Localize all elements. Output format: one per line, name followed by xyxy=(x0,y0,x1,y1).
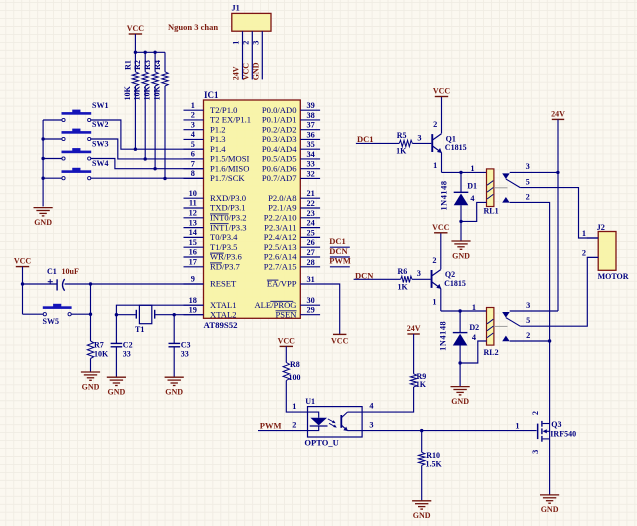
svg-text:PWM: PWM xyxy=(260,421,282,431)
svg-text:VCC: VCC xyxy=(14,257,32,266)
junction D2 bottom xyxy=(458,361,461,364)
svg-text:3: 3 xyxy=(417,269,421,278)
wire switch ground rail xyxy=(42,120,44,206)
svg-text:P1.3: P1.3 xyxy=(210,134,226,144)
svg-text:VCC: VCC xyxy=(331,336,349,345)
resistor R8 100 xyxy=(285,346,287,362)
RL1 pin 4 wire xyxy=(461,202,487,221)
svg-text:VCC: VCC xyxy=(432,223,450,232)
svg-text:T2 EX/P1.1: T2 EX/P1.1 xyxy=(210,115,251,125)
svg-text:4: 4 xyxy=(191,130,195,139)
capacitor C3 33 xyxy=(169,342,181,344)
wire XTAL2 to crystal xyxy=(155,314,203,316)
optocoupler U1 OPTO_U xyxy=(308,407,363,437)
ground (switches) xyxy=(34,207,53,209)
wire R8 to U1 pin 1 xyxy=(286,381,307,413)
junction ground rail xyxy=(41,177,44,180)
svg-text:31: 31 xyxy=(307,275,315,284)
junction D2 top xyxy=(458,309,461,312)
svg-text:D2: D2 xyxy=(469,323,479,332)
Q2 pin 1 emitter wire xyxy=(440,289,442,312)
svg-text:27: 27 xyxy=(307,248,315,257)
svg-text:1K: 1K xyxy=(416,380,427,389)
wire SW1 left terminal to ground rail xyxy=(43,119,62,121)
svg-text:DC1: DC1 xyxy=(329,236,346,246)
relay RL2 contacts xyxy=(502,312,510,318)
power VCC (R8) xyxy=(280,345,293,347)
svg-text:24V: 24V xyxy=(551,109,565,118)
J1 pin 1 (24V) xyxy=(242,31,244,79)
transistor Q2 C1815 xyxy=(431,270,433,288)
svg-text:1N4148: 1N4148 xyxy=(440,180,449,210)
IC1 pin 2 (T2 EX/P1.1) xyxy=(184,119,204,121)
switch SW4 pushbutton xyxy=(62,170,92,173)
svg-text:25: 25 xyxy=(307,228,315,237)
svg-text:32: 32 xyxy=(307,169,315,178)
svg-text:C1: C1 xyxy=(47,267,57,276)
svg-text:R6: R6 xyxy=(398,267,408,276)
svg-text:2: 2 xyxy=(433,120,437,129)
connector J1 (power header) xyxy=(232,13,271,31)
svg-text:GND: GND xyxy=(165,388,183,397)
wire SW3 left terminal to ground rail xyxy=(43,158,62,160)
svg-text:1N4148: 1N4148 xyxy=(439,321,448,351)
svg-text:P0.6/AD6: P0.6/AD6 xyxy=(262,163,297,173)
IC1 pin 38 (P0.1/AD1) xyxy=(300,119,320,121)
junction R4 / pin8 wire xyxy=(163,177,166,180)
wire SW2 right terminal to IC1 pin 6 xyxy=(91,139,204,159)
wire R1 bottom to P1.4 net xyxy=(134,86,136,149)
junction D1 top xyxy=(459,171,462,174)
svg-text:22: 22 xyxy=(307,199,315,208)
IC1 pin 27 (P2.6/A14) xyxy=(300,256,320,258)
svg-text:P0.2/AD2: P0.2/AD2 xyxy=(262,124,297,134)
svg-text:VCC: VCC xyxy=(433,87,451,96)
svg-text:8: 8 xyxy=(191,169,195,178)
svg-text:2: 2 xyxy=(526,331,530,340)
resistor R7 10K xyxy=(87,341,93,359)
svg-text:3: 3 xyxy=(191,120,195,129)
svg-text:P2.2/A10: P2.2/A10 xyxy=(264,213,297,223)
wire Q1 emitter to RL1 coil xyxy=(442,171,487,173)
wire PWM to U1 pin 2 xyxy=(258,430,308,432)
IC1 pin 25 (P2.4/A12) xyxy=(300,236,320,238)
junction R1 / pin5 wire xyxy=(134,148,137,151)
resistor R3 10K xyxy=(154,52,156,72)
svg-text:C1815: C1815 xyxy=(444,279,466,288)
IC1 pin 23 (P2.2/A10) xyxy=(300,217,320,219)
svg-text:30: 30 xyxy=(307,296,315,305)
svg-text:16: 16 xyxy=(189,248,197,257)
svg-text:33: 33 xyxy=(181,350,189,359)
relay RL1 coil xyxy=(487,169,494,207)
svg-text:3: 3 xyxy=(417,133,421,142)
svg-text:P0.3/AD3: P0.3/AD3 xyxy=(262,134,297,144)
svg-text:Nguon 3 chan: Nguon 3 chan xyxy=(168,22,218,32)
wire VCC to SW5 xyxy=(23,313,44,315)
svg-text:3: 3 xyxy=(369,421,373,430)
wire SW4 left terminal to ground rail xyxy=(43,177,62,179)
svg-text:3: 3 xyxy=(531,450,540,454)
svg-text:XTAL1: XTAL1 xyxy=(210,300,237,310)
IC1 pin 15 (T1/P3.5) xyxy=(184,246,204,248)
wire U1 pin 4 to R9 xyxy=(362,387,414,412)
svg-text:P1.4: P1.4 xyxy=(210,144,226,154)
svg-text:P0.0/AD0: P0.0/AD0 xyxy=(262,105,297,115)
svg-text:GND: GND xyxy=(413,511,431,520)
svg-text:VCC: VCC xyxy=(278,336,296,345)
svg-text:1: 1 xyxy=(515,421,519,430)
svg-text:VCC: VCC xyxy=(127,24,145,33)
svg-text:1: 1 xyxy=(292,402,296,411)
svg-text:R5: R5 xyxy=(397,131,407,140)
svg-text:XTAL2: XTAL2 xyxy=(210,309,237,319)
svg-text:R8: R8 xyxy=(290,360,300,369)
IC1 pin 1 (T2/P1.0) xyxy=(184,109,204,111)
IC1 pin 28 (P2.7/A15) xyxy=(300,266,320,268)
svg-text:P2.7/A15: P2.7/A15 xyxy=(264,262,297,272)
svg-text:GND: GND xyxy=(541,505,559,514)
svg-text:2: 2 xyxy=(582,248,586,257)
IC1 pin 37 (P0.2/AD2) xyxy=(300,129,320,131)
RL1 pin 2 wire down to Q3 drain xyxy=(510,202,550,423)
svg-text:P2.3/A11: P2.3/A11 xyxy=(264,222,296,232)
junction crystal right xyxy=(173,313,176,316)
svg-text:10uF: 10uF xyxy=(62,267,79,276)
IC1 pin 29 (PSEN) xyxy=(300,314,320,316)
svg-text:24V: 24V xyxy=(407,324,421,333)
svg-text:P1.5/MOSI: P1.5/MOSI xyxy=(210,154,250,164)
svg-text:P0.4/AD4: P0.4/AD4 xyxy=(262,144,297,154)
junction R3 / pin7 wire xyxy=(153,167,156,170)
svg-text:38: 38 xyxy=(307,111,315,120)
wire R5 to Q1 base xyxy=(412,142,431,144)
svg-text:Q2: Q2 xyxy=(445,270,455,279)
wire C3 to ground xyxy=(173,347,175,377)
ground (C2) xyxy=(107,376,126,378)
svg-text:GND: GND xyxy=(452,251,470,260)
IC1 pin 39 (P0.0/AD0) xyxy=(300,109,320,111)
Q2 pin 2 collector wire to VCC xyxy=(440,233,442,269)
svg-text:P2.4/A12: P2.4/A12 xyxy=(264,232,297,242)
power VCC (Q1 collector) xyxy=(435,96,448,98)
wire R7 to ground xyxy=(90,359,92,372)
Q1 pin 1 emitter wire xyxy=(441,153,443,173)
wire DCN to R6 xyxy=(354,278,401,280)
wire C2 to ground xyxy=(115,347,117,377)
power VCC (reset) xyxy=(16,266,29,268)
svg-text:1: 1 xyxy=(470,164,474,173)
junction rail-R1 xyxy=(134,51,137,54)
transistor Q1 C1815 xyxy=(431,134,433,152)
svg-text:TXD/P3.1: TXD/P3.1 xyxy=(210,203,246,213)
svg-text:17: 17 xyxy=(189,258,197,267)
svg-text:RL1: RL1 xyxy=(484,207,499,216)
power VCC (EA/VPP, flipped) xyxy=(333,333,346,335)
svg-text:29: 29 xyxy=(307,306,315,315)
switch SW1 pushbutton xyxy=(62,112,92,115)
svg-text:MOTOR: MOTOR xyxy=(598,272,629,281)
Q3 pin 3 source wire xyxy=(549,439,551,495)
wire R2 bottom to P1.5 net xyxy=(144,86,146,159)
svg-text:T1: T1 xyxy=(135,325,144,334)
resistor R5 1K xyxy=(399,140,412,146)
svg-text:P1.6/MISO: P1.6/MISO xyxy=(210,163,249,173)
wire SW5 to reset net xyxy=(71,313,90,315)
svg-text:2: 2 xyxy=(526,193,530,202)
junction rail-R3 xyxy=(153,51,156,54)
svg-text:P0.7/AD7: P0.7/AD7 xyxy=(262,173,297,183)
svg-text:2: 2 xyxy=(292,421,296,430)
wire R10 to ground xyxy=(421,465,423,500)
IC1 pin 30 (ALE/PROG) xyxy=(300,304,320,306)
wire DC1 to R5 xyxy=(356,142,399,144)
IC1 pin 17 (RD/P3.7) xyxy=(184,266,204,268)
wire VCC stem to rail xyxy=(134,34,136,52)
svg-text:36: 36 xyxy=(307,130,315,139)
IC1 pin 13 (INT1/P3.3) xyxy=(184,227,204,229)
resistor R2 10K xyxy=(144,52,146,72)
IC1 pin 14 (T0/P3.4) xyxy=(184,236,204,238)
svg-text:9: 9 xyxy=(191,275,195,284)
wire VCC stem down xyxy=(22,267,24,315)
wire R6 to Q2 base xyxy=(412,278,431,280)
resistor R1 10K xyxy=(134,52,136,72)
svg-text:19: 19 xyxy=(189,305,197,314)
wire SW1 right terminal to IC1 pin 5 xyxy=(91,120,204,149)
svg-text:5: 5 xyxy=(526,178,530,187)
wire C3 branch xyxy=(173,315,175,344)
wire RESET line to IC1 pin 9 xyxy=(23,283,58,285)
junction ground rail xyxy=(41,157,44,160)
svg-text:1: 1 xyxy=(433,161,437,170)
svg-text:1: 1 xyxy=(232,41,241,45)
IC1 pin 22 (P2.1/A9) xyxy=(300,207,320,209)
IC1 pin 21 (P2.0/A8) xyxy=(300,197,320,199)
ground (D2) xyxy=(451,386,470,388)
svg-text:7: 7 xyxy=(191,159,195,168)
wire D2 vertical xyxy=(459,311,461,333)
switch SW3 pushbutton xyxy=(62,151,92,154)
svg-text:R7: R7 xyxy=(94,341,104,350)
svg-text:4: 4 xyxy=(472,333,476,342)
wire SW3 right terminal to IC1 pin 7 xyxy=(91,159,204,169)
IC chip U-body IC1 AT89S52 xyxy=(204,100,301,318)
svg-text:10K: 10K xyxy=(143,85,152,100)
svg-text:10K: 10K xyxy=(153,85,162,100)
svg-text:RL2: RL2 xyxy=(484,348,499,357)
IC1 pin 34 (P0.5/AD5) xyxy=(300,158,320,160)
svg-text:D1: D1 xyxy=(467,181,477,190)
svg-text:24: 24 xyxy=(307,219,315,228)
svg-text:IRF540: IRF540 xyxy=(550,430,576,439)
ground (R10) xyxy=(412,500,431,502)
svg-text:3: 3 xyxy=(526,301,530,310)
svg-text:SW5: SW5 xyxy=(43,317,59,326)
svg-text:1: 1 xyxy=(432,297,436,306)
svg-text:GND: GND xyxy=(251,62,260,80)
IC1 pin 32 (P0.7/AD7) xyxy=(300,177,320,179)
IC1 pin 35 (P0.4/AD4) xyxy=(300,148,320,150)
switch SW2 pushbutton xyxy=(62,131,92,134)
svg-text:IC1: IC1 xyxy=(204,90,219,100)
svg-text:P0.1/AD1: P0.1/AD1 xyxy=(262,115,297,125)
transistor Q3 IRF540 (N-MOSFET) xyxy=(537,424,539,440)
junction C1/R7/SW5 xyxy=(89,282,92,285)
svg-text:1: 1 xyxy=(191,101,195,110)
svg-text:U1: U1 xyxy=(305,397,315,406)
svg-text:6: 6 xyxy=(191,150,195,159)
wire 24V rail xyxy=(557,119,559,311)
RL1 pin 3 wire to 24V xyxy=(510,171,558,173)
IC1 pin 24 (P2.3/A11) xyxy=(300,227,320,229)
IC1 pin 12 (INT0/P3.2) xyxy=(184,217,204,219)
J2 pin 2 xyxy=(587,256,598,258)
svg-text:34: 34 xyxy=(307,150,315,159)
ground (Q3) xyxy=(540,494,559,496)
svg-text:37: 37 xyxy=(307,121,315,130)
svg-text:28: 28 xyxy=(307,258,315,267)
diode D2 1N4148 xyxy=(453,332,468,334)
IC1 pin 7 (P1.6/MISO) xyxy=(184,168,204,170)
svg-text:Q3: Q3 xyxy=(551,420,561,429)
svg-text:Q1: Q1 xyxy=(446,134,456,143)
svg-text:33: 33 xyxy=(307,160,315,169)
wire Q2 emitter to RL2 coil xyxy=(441,310,487,312)
svg-text:4: 4 xyxy=(369,402,373,411)
IC1 pin 3 (P1.2) xyxy=(184,129,204,131)
IC1 pin 9 (RESET) xyxy=(184,283,204,285)
svg-text:P1.2: P1.2 xyxy=(210,124,226,134)
RL1 pin 5 wire to J2 pin 1 xyxy=(520,188,598,238)
svg-text:OPTO_U: OPTO_U xyxy=(304,438,338,448)
svg-text:GND: GND xyxy=(82,382,100,391)
svg-text:13: 13 xyxy=(189,218,197,227)
svg-text:RXD/P3.0: RXD/P3.0 xyxy=(210,193,246,203)
svg-text:2: 2 xyxy=(432,256,436,265)
svg-text:DC1: DC1 xyxy=(357,134,374,144)
svg-text:1: 1 xyxy=(472,303,476,312)
IC1 pin 33 (P0.6/AD6) xyxy=(300,168,320,170)
svg-text:2: 2 xyxy=(191,111,195,120)
junction D1 bottom xyxy=(459,220,462,223)
svg-text:R1: R1 xyxy=(123,60,132,70)
svg-text:DCN: DCN xyxy=(329,246,348,256)
IC1 pin 16 (WR/P3.6) xyxy=(184,256,204,258)
svg-text:J2: J2 xyxy=(597,223,605,232)
svg-text:2: 2 xyxy=(241,41,250,45)
wire reset net vertical xyxy=(90,284,92,341)
svg-text:P2.6/A14: P2.6/A14 xyxy=(264,252,297,262)
svg-text:T2/P1.0: T2/P1.0 xyxy=(210,105,237,115)
svg-text:5: 5 xyxy=(526,316,530,325)
junction R2 / pin6 wire xyxy=(144,157,147,160)
svg-text:14: 14 xyxy=(189,228,197,237)
svg-text:12: 12 xyxy=(189,209,197,218)
resistor R9 1K xyxy=(413,334,415,374)
svg-text:4: 4 xyxy=(470,194,474,203)
svg-text:P1.7/SCK: P1.7/SCK xyxy=(210,173,245,183)
svg-text:T1/P3.5: T1/P3.5 xyxy=(210,242,237,252)
Q1 pin 2 collector wire to VCC xyxy=(441,97,443,134)
J1 pin 2 (VCC) xyxy=(251,31,253,79)
wire SW4 right terminal to IC1 pin 8 xyxy=(91,177,204,179)
RL2 pin 5 wire to J2 pin 2 xyxy=(520,257,598,326)
svg-text:1K: 1K xyxy=(396,147,407,156)
IC1 pin 26 (P2.5/A13) xyxy=(300,246,320,248)
svg-text:21: 21 xyxy=(307,189,315,198)
ground (C3) xyxy=(165,376,184,378)
resistor R4 10K xyxy=(164,52,166,72)
svg-text:10K: 10K xyxy=(123,85,132,100)
RL2 pin 4 wire xyxy=(460,341,486,363)
diode D1 1N4148 xyxy=(454,191,469,193)
svg-text:C3: C3 xyxy=(181,341,191,350)
svg-text:P2.5/A13: P2.5/A13 xyxy=(264,242,297,252)
svg-text:35: 35 xyxy=(307,140,315,149)
svg-text:1.5K: 1.5K xyxy=(426,459,443,468)
svg-text:PWM: PWM xyxy=(329,256,351,266)
junction rail-R2 xyxy=(144,51,147,54)
svg-text:10K: 10K xyxy=(94,350,109,359)
U1 light arrows xyxy=(328,419,335,423)
svg-text:P0.5/AD5: P0.5/AD5 xyxy=(262,154,297,164)
IC1 pin 5 (P1.4) xyxy=(184,148,204,150)
svg-text:3: 3 xyxy=(526,162,530,171)
capacitor C1 10uF (polarized) xyxy=(56,279,58,290)
crystal T1 xyxy=(116,314,135,316)
ground (R7) xyxy=(81,371,100,373)
svg-text:11: 11 xyxy=(189,199,197,208)
svg-text:SW1: SW1 xyxy=(92,101,108,110)
svg-text:C2: C2 xyxy=(123,341,133,350)
svg-text:18: 18 xyxy=(189,296,197,305)
svg-text:33: 33 xyxy=(123,350,131,359)
IC1 pin 8 (P1.7/SCK) xyxy=(184,177,204,179)
svg-text:23: 23 xyxy=(307,209,315,218)
junction 24V/RL1 pin3 xyxy=(556,171,559,174)
wire SW2 left terminal to ground rail xyxy=(43,138,62,140)
svg-text:J1: J1 xyxy=(232,4,240,13)
svg-text:39: 39 xyxy=(307,101,315,110)
svg-text:GND: GND xyxy=(108,388,126,397)
svg-text:T0/P3.4: T0/P3.4 xyxy=(210,232,238,242)
svg-text:24V: 24V xyxy=(232,66,241,80)
svg-text:SW2: SW2 xyxy=(92,120,108,129)
svg-text:C1815: C1815 xyxy=(445,143,467,152)
U1 internal LED xyxy=(308,412,319,418)
resistor R10 1.5K xyxy=(421,431,423,453)
IC1 pin 36 (P0.3/AD3) xyxy=(300,138,320,140)
J1 pin 3 (GND) xyxy=(261,31,263,79)
svg-text:5: 5 xyxy=(191,140,195,149)
svg-text:100: 100 xyxy=(289,373,301,382)
wire U1 pin 3 to gate net xyxy=(362,430,536,432)
wire R4 bottom to P1.7 net xyxy=(164,86,166,178)
wire XTAL1 to crystal xyxy=(116,305,203,343)
relay RL2 coil xyxy=(487,308,494,346)
RL2 pin 2 wire xyxy=(510,340,550,342)
svg-text:SW4: SW4 xyxy=(92,159,108,168)
junction RL2 pin2 / Q3 drain xyxy=(548,339,551,342)
resistor R6 1K xyxy=(401,276,412,282)
relay RL1 contacts xyxy=(502,173,510,179)
svg-text:10K: 10K xyxy=(133,85,142,100)
junction SW5/R7 xyxy=(89,313,92,316)
junction crystal left xyxy=(115,313,118,316)
svg-text:1K: 1K xyxy=(398,282,409,291)
svg-text:1: 1 xyxy=(582,229,586,238)
